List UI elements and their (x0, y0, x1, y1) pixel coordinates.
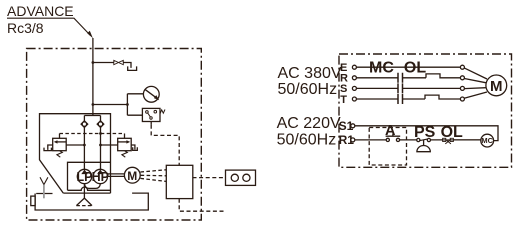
terminal S (340, 83, 356, 95)
drain to tank (needle valve) (128, 66, 137, 70)
svg-text:Rc3/8: Rc3/8 (7, 20, 44, 36)
drain plug (31, 196, 35, 206)
junction: gauge branch (92, 103, 95, 106)
check valve left (81, 121, 88, 128)
relief valve right (118, 138, 138, 157)
wire: HP line to right relief (101, 144, 118, 146)
label OL (main) (404, 60, 426, 77)
svg-text:AC 220V: AC 220V (277, 115, 341, 132)
svg-text:HP: HP (92, 170, 109, 184)
terminal E (340, 62, 356, 74)
reservoir tank (35, 193, 148, 210)
control wire R1 (355, 139, 481, 141)
pressure switch contact PS (417, 138, 431, 151)
hydraulic unit boundary (dash-dot box) (27, 49, 202, 221)
pushbutton A (386, 134, 401, 142)
needle valve (114, 60, 124, 64)
pushbutton A dashed enclosure (369, 128, 406, 166)
power connector (226, 170, 256, 185)
overload contact OL (442, 138, 481, 144)
strainer (76, 198, 92, 206)
suction manifold (85, 184, 101, 189)
svg-text:A: A (385, 123, 396, 139)
svg-text:T: T (340, 94, 347, 106)
control wire S1 (355, 126, 498, 141)
pilot line (dashed) (60, 133, 125, 135)
svg-text:ADVANCE: ADVANCE (7, 3, 74, 19)
terminal R1 (339, 133, 355, 147)
svg-text:MC: MC (369, 60, 394, 77)
terminal T (340, 94, 356, 106)
motor M (hydraulic) (124, 167, 140, 183)
supply pipe (main vertical line) (92, 38, 94, 116)
svg-text:PS: PS (414, 124, 436, 141)
control panel boundary (dash-dot box) (339, 54, 512, 167)
label PS (414, 124, 436, 141)
check valve header (84, 116, 100, 122)
motor lead terminals (460, 65, 464, 69)
terminal R (340, 73, 356, 85)
wire: left relief to LP line (66, 144, 84, 146)
wire: branch to needle valve (93, 62, 114, 64)
wire S line (356, 87, 460, 89)
pressure switch PS (142, 108, 165, 124)
wire E line (356, 66, 460, 68)
HP pressure line (100, 127, 102, 169)
svg-text:LP: LP (77, 170, 93, 184)
junction: needle valve branch (92, 61, 95, 64)
relief valve left (44, 138, 66, 157)
wire: gauge branch (93, 94, 143, 115)
svg-text:M: M (127, 169, 137, 183)
motor M (electric) (486, 75, 507, 96)
label A (385, 123, 396, 139)
suction line (83, 184, 85, 198)
motor leads (464, 68, 487, 98)
svg-text:OL: OL (404, 60, 426, 77)
breather (40, 177, 48, 198)
wire T line (356, 95, 460, 99)
wire: junction box to connector (dashed) (193, 177, 226, 179)
PS signal wire (dashed) (151, 125, 179, 165)
pressure gauge (143, 86, 159, 102)
motor M (hydraulic) coupling (108, 174, 125, 177)
LP pressure line (83, 127, 85, 169)
pump HP (92, 169, 109, 184)
wire: needle valve to drain (123, 63, 131, 68)
label MC (main) (369, 60, 394, 77)
manifold block outline (40, 114, 111, 193)
contactor coil MC (481, 134, 494, 147)
svg-text:AC 380V: AC 380V (278, 65, 342, 82)
pump LP (77, 169, 93, 184)
svg-text:50/60Hz: 50/60Hz (278, 81, 338, 98)
label OL (control) (441, 124, 463, 141)
svg-text:OL: OL (441, 124, 463, 141)
motor wiring (dashed) (140, 170, 166, 182)
svg-text:MC: MC (481, 136, 493, 145)
wire R line (356, 74, 460, 78)
cable exit (dashed) (179, 199, 223, 212)
terminal S1 (339, 119, 355, 133)
label ADVANCE (7, 3, 93, 38)
svg-text:50/60Hz: 50/60Hz (277, 131, 337, 148)
check valve right (97, 121, 104, 128)
junction box (166, 165, 193, 198)
pump enclosure (68, 162, 111, 190)
MC main contacts (398, 73, 403, 104)
svg-text:M: M (490, 78, 503, 95)
